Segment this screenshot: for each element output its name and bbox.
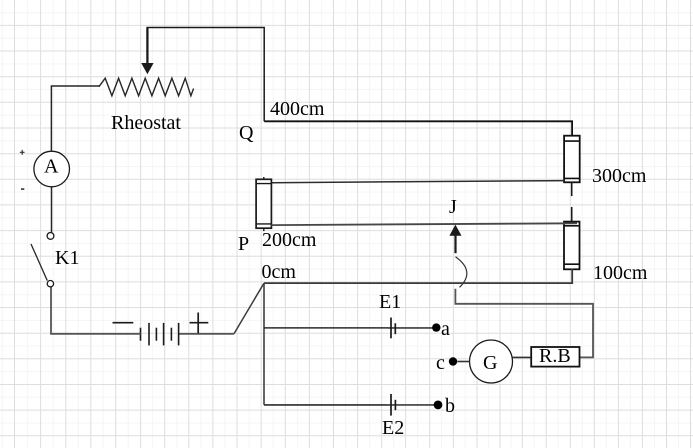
- svg-text:E2: E2: [382, 417, 404, 439]
- battery pack (3 cells): [141, 323, 179, 346]
- label 400cm: [270, 98, 325, 120]
- jockey J arrow: [449, 225, 461, 254]
- label Q: [239, 122, 254, 144]
- connector strap left (P): [256, 177, 271, 231]
- svg-text:Rheostat: Rheostat: [111, 112, 181, 134]
- svg-text:a: a: [441, 318, 450, 340]
- label J: [449, 196, 457, 218]
- ammeter minus terminal mark: [21, 188, 24, 190]
- svg-text:b: b: [445, 395, 455, 417]
- svg-text:K1: K1: [55, 247, 79, 269]
- label Rheostat: [111, 112, 181, 134]
- svg-text:R.B: R.B: [539, 345, 571, 367]
- wire: E2 tap: [264, 404, 388, 406]
- battery E1: [379, 291, 433, 338]
- wire: jockey to R.B branch: [455, 289, 593, 358]
- svg-text:Q: Q: [239, 122, 254, 144]
- wire: galvanometer to node c: [457, 361, 469, 363]
- ammeter plus terminal mark: [20, 150, 25, 155]
- wire: 0cm diagonal to battery: [234, 283, 264, 334]
- svg-text:300cm: 300cm: [592, 165, 647, 187]
- connector strap right upper: [564, 136, 580, 183]
- svg-text:200cm: 200cm: [262, 229, 317, 251]
- node a: [432, 318, 450, 340]
- battery plus mark: [190, 313, 209, 334]
- wire: tap to E1: [264, 327, 390, 329]
- wire: battery right lead: [179, 333, 234, 335]
- svg-text:E1: E1: [379, 291, 401, 313]
- wire: slider to 400cm corner (top run): [147, 28, 265, 122]
- label 100cm: [593, 262, 648, 284]
- svg-text:400cm: 400cm: [270, 98, 325, 120]
- node c: [436, 352, 457, 374]
- label 0cm: [262, 261, 297, 283]
- wire: slide-wire row 1 (300-400cm): [264, 121, 572, 136]
- wire: slide-wire row 2 (200-300cm): [271, 181, 564, 183]
- svg-text:A: A: [44, 156, 59, 178]
- svg-text:J: J: [449, 196, 457, 218]
- wire: battery left lead to switch: [51, 287, 141, 334]
- battery E2: [382, 394, 434, 439]
- node b: [434, 395, 455, 417]
- svg-text:c: c: [436, 352, 445, 374]
- battery minus mark: [113, 322, 134, 324]
- svg-text:0cm: 0cm: [262, 261, 297, 283]
- ammeter A: [34, 151, 70, 187]
- svg-text:P: P: [238, 233, 249, 255]
- svg-text:100cm: 100cm: [593, 262, 648, 284]
- wire: R.B to galvanometer: [513, 356, 531, 358]
- resistance box R.B: [531, 345, 579, 367]
- rheostat slider arrow: [141, 28, 153, 75]
- label P: [238, 233, 249, 255]
- connector strap right lower: [564, 222, 580, 270]
- svg-text:G: G: [483, 352, 497, 374]
- wire: slide-wire row 4 (0-100cm): [264, 269, 572, 284]
- jockey hop arc over row 4: [456, 257, 467, 288]
- wire: switch to ammeter: [51, 187, 53, 233]
- wire: broken link between right straps: [571, 182, 573, 221]
- wire: ammeter top to rheostat left lead: [51, 86, 100, 151]
- galvanometer G: [470, 340, 513, 383]
- wire: slide-wire row 3 (100-200cm): [271, 223, 577, 225]
- wire: 0cm down branch with E1/E2 taps: [263, 283, 265, 405]
- switch K1: [31, 233, 79, 287]
- label 200cm: [262, 229, 317, 251]
- label 300cm: [592, 165, 647, 187]
- resistor rheostat (zigzag): [99, 78, 194, 96]
